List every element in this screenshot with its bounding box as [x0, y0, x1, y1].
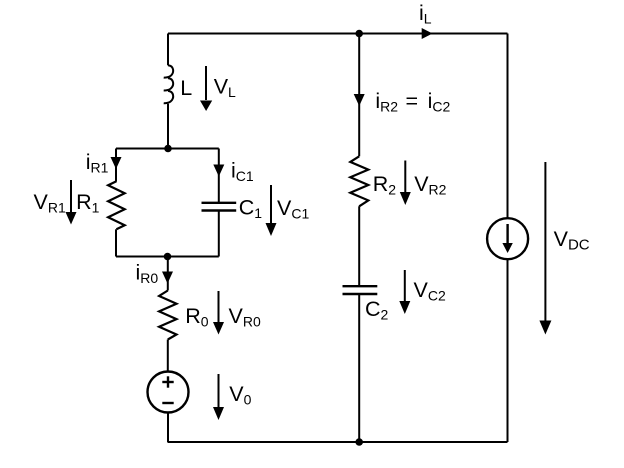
svg-text:L: L [180, 76, 192, 100]
node N3 parallel top junction [164, 145, 172, 153]
resistor R0 [159, 291, 176, 340]
current arrow i_L [422, 28, 433, 39]
label R1 [76, 190, 100, 216]
label V_L [214, 75, 236, 101]
label V_C2 [414, 278, 446, 304]
wire inductor branch upper [167, 34, 169, 66]
label C2 [365, 297, 389, 323]
wire right sub-branch lower [218, 211, 220, 257]
voltage arrow V_DC [539, 162, 551, 335]
resistor R2 [350, 156, 368, 206]
label i_R0 [136, 261, 159, 287]
inductor L [164, 65, 173, 103]
voltage arrow V_0 [213, 374, 224, 420]
label i_C1 [231, 159, 254, 185]
voltage arrow V_R2 [400, 161, 411, 206]
wire R2 to C2 [358, 206, 360, 285]
wire middle branch upper [358, 34, 360, 157]
node N1 top junction [355, 30, 363, 38]
resistor R1 [108, 181, 125, 229]
voltage arrow V_C1 [266, 185, 277, 236]
label R2 [373, 172, 397, 198]
voltage source V0 [148, 372, 189, 413]
label i_R1 [86, 150, 109, 176]
label i_R2 = i_C2 [375, 89, 450, 115]
label L [180, 76, 192, 100]
node N2 bottom junction [355, 438, 363, 446]
wire inductor branch lower [167, 104, 169, 149]
wire left sub-branch upper [115, 149, 117, 182]
current arrow i_C1 [213, 165, 224, 177]
wire R0 to source [167, 340, 169, 372]
wire parallel bottom rail [116, 256, 219, 258]
capacitor C2 [343, 286, 378, 294]
capacitor C1 [202, 203, 237, 211]
label V_DC [554, 227, 590, 254]
wire source to bottom rail [167, 413, 169, 443]
label V_0 [229, 382, 251, 408]
current source I1 [487, 218, 528, 259]
label V_R0 [229, 304, 261, 330]
node N4 parallel bottom junction [164, 253, 172, 261]
label R0 [185, 304, 209, 330]
label V_R1 [34, 190, 66, 216]
wire series branch upper [167, 257, 169, 291]
current arrow i_R2 [354, 94, 365, 106]
voltage arrow V_R1 [66, 180, 77, 225]
label i_L [419, 1, 432, 27]
wire bottom rail [168, 441, 508, 443]
current arrow i_R1 [111, 157, 122, 169]
wire parallel top rail [116, 148, 219, 150]
wire top rail [168, 33, 508, 35]
label C1 [239, 195, 263, 221]
label V_R2 [414, 172, 446, 198]
current arrow i_R0 [162, 272, 173, 284]
voltage arrow V_C2 [399, 270, 410, 314]
voltage arrow V_R0 [213, 291, 224, 335]
wire right branch lower [507, 259, 509, 442]
wire right branch upper [507, 34, 509, 219]
wire left sub-branch lower [115, 229, 117, 256]
voltage arrow V_L [200, 66, 212, 111]
label V_C1 [277, 196, 309, 222]
wire right sub-branch upper [218, 149, 220, 203]
wire middle branch lower [358, 294, 360, 442]
